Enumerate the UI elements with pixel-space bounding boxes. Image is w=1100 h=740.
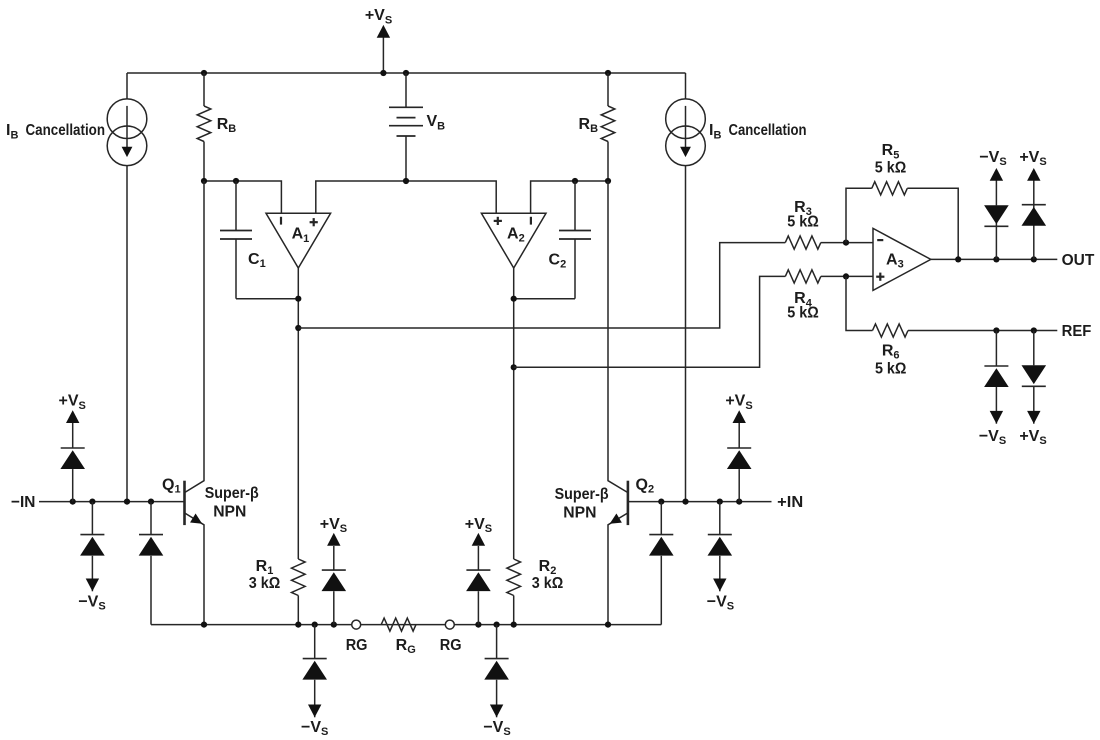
wire A1 output to R3 (long horizontal then up): [298, 243, 785, 328]
resistor R2 3k: [507, 559, 521, 596]
op-amp A3 (triangle pointing right): [873, 228, 931, 290]
op-amp A1 (triangle pointing down): [266, 213, 331, 268]
svg-text:5 kΩ: 5 kΩ: [787, 214, 819, 231]
transistor Q2 collector: [608, 181, 628, 493]
resistor R6 5k: [873, 324, 909, 337]
wire R3 to A3 minus input: [821, 242, 873, 244]
svg-text:NPN: NPN: [213, 504, 246, 521]
diode +IN to bottom rail (pointing up): [660, 502, 662, 535]
svg-text:REF: REF: [1062, 323, 1092, 340]
wire A2 output to R4 (long horizontal then up): [514, 276, 786, 367]
diode clamp REF to -VS (below REF, pointing up): [995, 331, 997, 367]
node dot +IN / IB source column: [682, 499, 688, 505]
diode clamp OUT to +VS (above OUT, pointing up): [1033, 205, 1035, 260]
wire A2 output column (apex to bottom rail through R2): [513, 268, 515, 559]
wire second rail right segment (A2 minus input to RB right): [531, 181, 608, 213]
svg-text:+VS: +VS: [465, 516, 492, 535]
wire second rail center segment (A1 plus input to A2 plus input): [316, 181, 496, 213]
transistor Q1 base bar: [183, 481, 186, 525]
svg-text:Super-β: Super-β: [555, 486, 609, 503]
diode bottom rail to +VS right (pointing up): [477, 591, 479, 624]
node dot rail2 / C1 top: [233, 178, 239, 184]
node dot output / +VS clamp: [1031, 256, 1037, 262]
node dot -IN / bottom-rail diode: [148, 499, 154, 505]
wire -IN line: [39, 501, 185, 503]
resistor RG external: [381, 618, 416, 631]
op-amp A1 plus mark: [310, 221, 318, 223]
wire left IB-source top stub: [126, 73, 128, 99]
wire right IB-source top stub: [685, 73, 687, 99]
wire A3 output to OUT terminal: [931, 258, 1058, 260]
diode bottom rail to -VS left (pointing up, below rail): [314, 625, 316, 659]
wire R5 to output node: [907, 188, 958, 259]
diode -IN to bottom rail (pointing up): [150, 502, 152, 535]
svg-text:+VS: +VS: [320, 516, 347, 535]
node dot A2 output / C2: [511, 296, 517, 302]
wire C2 bottom to A2 output: [514, 298, 575, 300]
node dot +IN / bottom-rail diode: [658, 499, 664, 505]
svg-text:RG: RG: [346, 637, 368, 654]
node dot rail2 / VB bottom: [403, 178, 409, 184]
node dot top rail / VB battery: [403, 70, 409, 76]
svg-text:Super-β: Super-β: [205, 485, 259, 502]
node dot bottom rail / R1: [295, 622, 301, 628]
svg-text:IB: IB: [6, 122, 18, 141]
svg-text:+VS: +VS: [1019, 149, 1046, 168]
wire REF line to REF terminal: [908, 330, 1057, 332]
op-amp A3 plus mark: [876, 276, 884, 278]
transistor Q1 collector: [185, 181, 205, 493]
svg-text:+VS: +VS: [59, 393, 86, 412]
wire top +VS supply rail: [127, 72, 686, 74]
svg-text:−VS: −VS: [979, 149, 1006, 168]
svg-text:5 kΩ: 5 kΩ: [875, 360, 907, 377]
op-amp A2 (triangle pointing down): [481, 213, 546, 268]
op-amp A3 minus mark: [877, 239, 883, 241]
node dot A3 plus input junction: [843, 273, 849, 279]
svg-text:RB: RB: [579, 116, 599, 135]
svg-text:−VS: −VS: [483, 719, 510, 738]
diode -IN to -VS (pointing up, below line): [91, 502, 93, 535]
node dot A2 output branch to R4: [511, 364, 517, 370]
terminal RG left (open circle): [352, 620, 361, 629]
transistor Q2 base bar: [627, 481, 630, 525]
current source IB cancellation left (circles): [107, 99, 147, 139]
svg-text:C1: C1: [248, 251, 266, 270]
svg-text:+VS: +VS: [725, 393, 752, 412]
svg-text:Cancellation: Cancellation: [729, 122, 807, 139]
+VS supply arrow (top center): [382, 38, 384, 74]
svg-text:C2: C2: [549, 252, 567, 271]
node dot -IN / -VS diode: [89, 499, 95, 505]
node dot top rail / RB right: [605, 70, 611, 76]
node dot +IN / +VS diode: [736, 499, 742, 505]
svg-text:RG: RG: [396, 637, 416, 656]
resistor RB right: [607, 73, 609, 106]
wire +IN line: [628, 501, 772, 503]
resistor R3 5k: [785, 236, 821, 249]
wire R4 to A3 plus input: [821, 275, 873, 277]
wire second rail left segment (RB left to A1 minus input): [204, 181, 281, 213]
node dot -IN / +VS diode: [70, 499, 76, 505]
node dot top rail / +VS arrow: [380, 70, 386, 76]
capacitor C2: [574, 181, 576, 231]
node dot REF / -VS clamp: [993, 327, 999, 333]
resistor R1 3k: [292, 559, 306, 596]
svg-text:+VS: +VS: [1019, 428, 1046, 447]
wire right IB source down to +IN node: [685, 166, 687, 502]
wire bottom rail: [151, 624, 661, 626]
terminal RG right (open circle): [445, 620, 454, 629]
diode clamp REF to +VS (below REF, pointing down): [1033, 331, 1035, 366]
svg-text:RB: RB: [217, 116, 237, 135]
op-amp A2 plus mark: [494, 220, 502, 222]
wire A1 output column (apex to bottom rail through R1): [297, 268, 299, 559]
svg-text:5 kΩ: 5 kΩ: [875, 159, 907, 176]
node dot bottom rail / R2: [511, 622, 517, 628]
svg-text:−VS: −VS: [301, 719, 328, 738]
node dot bottom rail / -VS diode right: [494, 622, 500, 628]
diode bottom rail to +VS left (pointing up): [333, 591, 335, 624]
resistor RB left: [203, 73, 205, 106]
node dot top rail / RB left: [201, 70, 207, 76]
current source IB cancellation right (circles): [666, 99, 706, 139]
node dot rail2 / RB right: [605, 178, 611, 184]
svg-text:5 kΩ: 5 kΩ: [787, 305, 819, 322]
svg-text:−IN: −IN: [11, 494, 35, 511]
svg-text:3 kΩ: 3 kΩ: [532, 575, 564, 592]
node dot REF / +VS clamp: [1031, 327, 1037, 333]
node dot A3 minus input junction: [843, 240, 849, 246]
svg-text:3 kΩ: 3 kΩ: [249, 575, 281, 592]
op-amp A1 minus mark: [280, 217, 282, 225]
node dot output / R5 feedback: [955, 256, 961, 262]
svg-text:−VS: −VS: [78, 594, 105, 613]
svg-text:OUT: OUT: [1062, 252, 1095, 269]
op-amp A2 minus mark: [530, 217, 532, 225]
node dot A1 output / C1: [295, 296, 301, 302]
battery VB: [405, 73, 407, 107]
node dot A1 output branch to R3: [295, 325, 301, 331]
diode bottom rail to -VS right (pointing up, below rail): [496, 625, 498, 659]
wire C1 bottom to A1 output: [236, 298, 298, 300]
transistor Q2 emitter with arrow: [608, 513, 628, 625]
svg-text:−VS: −VS: [707, 594, 734, 613]
node dot rail2 / C2 top: [572, 178, 578, 184]
current source IB left arrow: [126, 106, 128, 147]
node dot -IN / IB source column: [124, 499, 130, 505]
node dot bottom rail / +VS diode left: [331, 622, 337, 628]
resistor R5 5k: [872, 182, 908, 195]
node dot bottom rail / Q2 emitter: [605, 622, 611, 628]
svg-text:VB: VB: [427, 113, 446, 132]
wire R5 feedback loop: [846, 188, 872, 242]
current source IB right arrow: [685, 106, 687, 147]
capacitor C1: [235, 181, 237, 231]
diode +IN to +VS (pointing up): [738, 469, 740, 502]
node dot output / -VS clamp: [993, 256, 999, 262]
svg-text:Cancellation: Cancellation: [26, 122, 106, 139]
diode -IN to +VS (pointing up): [72, 469, 74, 502]
diode +IN to -VS (pointing up, below line): [719, 502, 721, 535]
node dot rail2 / RB left: [201, 178, 207, 184]
svg-text:+IN: +IN: [777, 494, 803, 511]
svg-text:R6: R6: [882, 343, 900, 362]
diode clamp OUT to -VS (above OUT, pointing down): [995, 205, 997, 259]
svg-text:NPN: NPN: [563, 505, 596, 522]
svg-text:+VS: +VS: [365, 7, 392, 26]
svg-text:Q2: Q2: [636, 477, 655, 496]
wire R6 tap from A3 plus input down to REF: [846, 276, 873, 330]
svg-text:−VS: −VS: [979, 428, 1006, 447]
transistor Q1 emitter with arrow: [185, 513, 205, 625]
node dot bottom rail / Q1 emitter: [201, 622, 207, 628]
resistor R4 5k: [785, 270, 821, 283]
node dot +IN / -VS diode: [717, 499, 723, 505]
wire left IB source down to -IN node: [126, 166, 128, 502]
node dot bottom rail / +VS diode right: [475, 622, 481, 628]
node dot bottom rail / -VS diode left: [312, 622, 318, 628]
svg-text:Q1: Q1: [162, 477, 181, 496]
svg-text:RG: RG: [440, 637, 462, 654]
svg-text:IB: IB: [709, 122, 721, 141]
